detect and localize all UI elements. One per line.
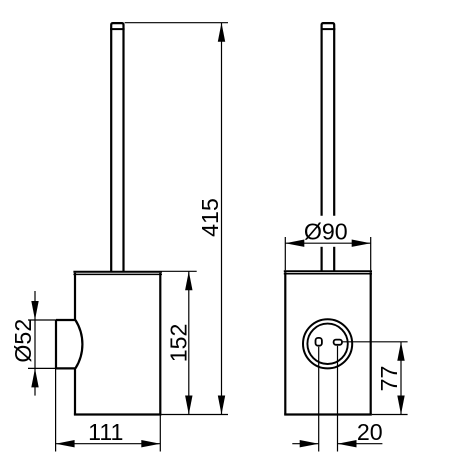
dim 415: top extension line bbox=[125, 22, 228, 24]
dim diameter 52: upper arrowhead pointing down bbox=[31, 301, 38, 320]
side view: body left edge upper segment bbox=[74, 273, 76, 320]
side view: lid bottom seam line bbox=[73, 273, 162, 275]
side view: wall-mount plate bottom edge bbox=[56, 367, 75, 369]
dim 20: right arrowhead pointing left bbox=[338, 440, 357, 447]
front view: lid bottom seam line bbox=[284, 273, 372, 275]
dim diameter 90: right arrowhead bbox=[352, 240, 371, 247]
side view: body right edge bbox=[159, 273, 161, 415]
front view: brush handle rod bbox=[322, 23, 335, 271]
dim 415: dimension line bbox=[221, 23, 223, 415]
dim 152: dimension line bbox=[188, 271, 190, 414]
side view: body bottom edge bbox=[74, 413, 161, 415]
front view: mount plate outer circle bbox=[303, 319, 352, 368]
dim diameter 90: left arrowhead bbox=[285, 240, 304, 247]
dim 77: top arrowhead bbox=[397, 342, 404, 361]
side view: lid top line bbox=[73, 271, 162, 273]
side view: brush handle rod bbox=[111, 23, 123, 271]
svg-text:77: 77 bbox=[376, 366, 402, 392]
front view: left mounting hole bbox=[316, 338, 322, 346]
dim diameter 52: top extension line bbox=[28, 319, 56, 321]
dim 111: right extension line bbox=[159, 415, 161, 452]
svg-text:415: 415 bbox=[197, 198, 223, 237]
dim 20: left arrowhead pointing right bbox=[300, 440, 319, 447]
side view: wall-mount plate left edge bbox=[55, 320, 57, 368]
dim 77: bottom arrowhead bbox=[397, 396, 404, 415]
dim 111: right arrowhead bbox=[141, 440, 160, 447]
svg-text:20: 20 bbox=[357, 419, 383, 445]
dim diameter 52: lower arrowhead pointing up bbox=[31, 368, 38, 387]
dim 152: top arrowhead bbox=[185, 271, 192, 290]
dim 111: left arrowhead bbox=[56, 440, 75, 447]
side view: handle cap seam line bbox=[110, 28, 125, 30]
dim diameter 90: right extension line bbox=[370, 237, 372, 270]
dim 152: bottom arrowhead bbox=[185, 396, 192, 415]
dim 111: dimension line bbox=[56, 443, 161, 445]
front view: right mounting hole bbox=[334, 340, 342, 345]
dim 20: left hole extension line bbox=[318, 347, 320, 452]
front view: lid top line bbox=[284, 270, 372, 272]
svg-text:Ø52: Ø52 bbox=[10, 319, 36, 363]
dim 20: right hole extension line bbox=[337, 346, 339, 452]
dim diameter 90: dimension line bbox=[285, 242, 370, 244]
side view: wall-mount plate domed face arc bbox=[75, 320, 82, 368]
front view: handle cap seam line bbox=[321, 28, 336, 30]
svg-text:111: 111 bbox=[88, 419, 123, 445]
side view: body left edge lower segment bbox=[74, 368, 76, 414]
dim 77: dimension line bbox=[400, 342, 402, 415]
dim 415: bottom extension line bbox=[161, 414, 228, 416]
front view: mount plate inner circle bbox=[307, 324, 347, 364]
dim diameter 90: left extension line bbox=[284, 237, 286, 270]
dim diameter 52: dimension line bbox=[34, 291, 36, 396]
side view: wall-mount plate top edge bbox=[56, 319, 75, 321]
dim diameter 52: bottom extension line bbox=[28, 367, 56, 369]
dim 415: bottom arrowhead bbox=[218, 396, 225, 415]
svg-text:Ø90: Ø90 bbox=[304, 219, 348, 245]
front view: body right edge bbox=[370, 272, 372, 414]
front view: body left edge bbox=[284, 272, 286, 414]
svg-text:152: 152 bbox=[165, 324, 191, 363]
dim 77: bottom extension line bbox=[372, 414, 408, 416]
dim 111: left extension line bbox=[55, 368, 57, 451]
dim 20: right tail line bbox=[338, 443, 383, 445]
dim 415: top arrowhead bbox=[218, 23, 225, 42]
front view: body bottom edge bbox=[284, 413, 372, 415]
dim 152: top extension line bbox=[162, 270, 197, 272]
dim 20: left tail line bbox=[292, 443, 318, 445]
dim 77: top leader line from hole centre bbox=[342, 341, 408, 343]
